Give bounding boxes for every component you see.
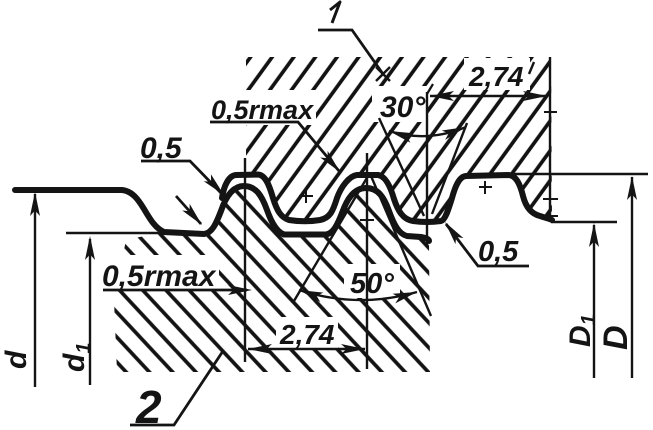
svg-text:d: d: [0, 350, 33, 369]
svg-text:0,5rmax: 0,5rmax: [102, 260, 217, 293]
svg-text:30°: 30°: [380, 91, 426, 124]
svg-text:50°: 50°: [350, 268, 394, 300]
svg-text:2: 2: [135, 381, 162, 430]
svg-text:D: D: [597, 325, 635, 350]
svg-text:0,5: 0,5: [478, 236, 519, 268]
svg-text:0,5: 0,5: [140, 132, 183, 165]
svg-text:2,74: 2,74: [279, 319, 335, 350]
svg-text:d1: d1: [58, 343, 95, 372]
svg-text:2,74: 2,74: [468, 61, 524, 92]
svg-text:D1: D1: [564, 314, 600, 347]
svg-text:0,5rmax: 0,5rmax: [211, 95, 314, 125]
